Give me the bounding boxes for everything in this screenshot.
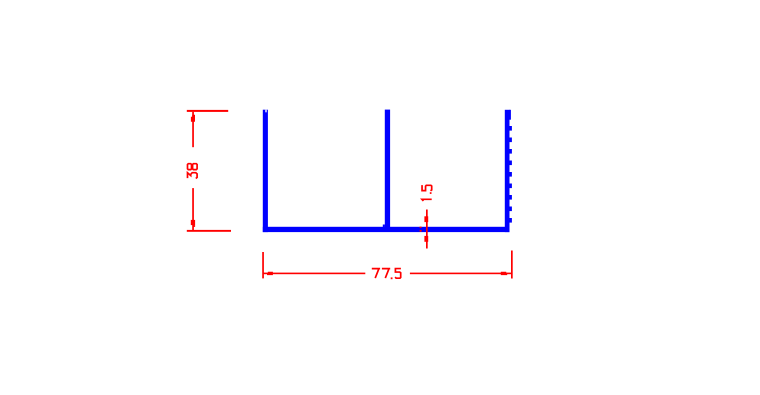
dim 1.5 upper arrowhead bbox=[424, 216, 428, 222]
dim 38 bottom arrowhead bbox=[191, 220, 195, 225]
profile middle wall bbox=[383, 110, 390, 228]
dim 38 bottom extension line bbox=[187, 230, 231, 232]
profile bottom web bbox=[263, 227, 510, 232]
dim 1.5 text (rotated) bbox=[422, 185, 432, 201]
dim 77.5 left arrowhead bbox=[267, 272, 273, 275]
dim 38 dimension line upper segment bbox=[192, 112, 194, 147]
dim 77.5 left extension line bbox=[262, 252, 264, 278]
profile left wall bbox=[263, 110, 268, 232]
dim 38 top arrowhead bbox=[191, 115, 195, 122]
dim 1.5 extension line stub upper bbox=[420, 227, 422, 228]
dim 77.5 dimension line right segment bbox=[410, 273, 512, 275]
dim 1.5 lower arrowhead bbox=[424, 236, 428, 242]
profile right wall (serrated) bbox=[505, 110, 512, 232]
dim 1.5 dimension line bbox=[426, 210, 428, 249]
dim 77.5 dimension line left segment bbox=[263, 273, 365, 275]
dim 1.5 extension line stub lower bbox=[420, 230, 422, 232]
dim 77.5 right extension line bbox=[511, 251, 513, 279]
dim 77.5 text bbox=[372, 269, 401, 280]
dim 38 text (rotated) bbox=[188, 164, 198, 179]
dim 38 top extension line bbox=[187, 110, 228, 112]
dim 77.5 right arrowhead bbox=[501, 272, 507, 275]
dim 38 dimension line lower segment bbox=[192, 188, 194, 230]
